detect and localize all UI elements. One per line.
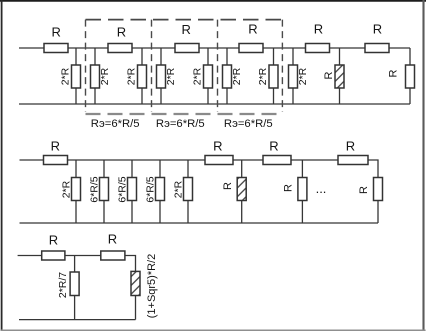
svg-text:R: R <box>346 138 355 153</box>
resistor R series 4 (top ladder) <box>239 44 263 53</box>
resistor (1+Sqr5)*R/2 shunt hatched (bottom circuit) <box>131 271 140 319</box>
svg-text:R: R <box>388 69 400 77</box>
svg-text:R: R <box>51 138 60 153</box>
svg-text:2*R: 2*R <box>231 67 243 85</box>
resistor R series 1 (middle ladder) <box>44 156 68 165</box>
svg-text:2*R: 2*R <box>192 67 204 85</box>
resistor R series 2 (bottom circuit) <box>101 251 125 260</box>
resistor R series 3 (top ladder) <box>175 44 199 53</box>
svg-text:R: R <box>108 232 117 247</box>
dashed box: left edge (cell 1) <box>85 20 87 112</box>
svg-text:Rэ=6*R/5: Rэ=6*R/5 <box>156 118 205 130</box>
svg-text:R: R <box>182 22 191 37</box>
svg-text:2*R: 2*R <box>257 67 269 85</box>
resistor R series 4 (middle ladder) <box>338 156 368 165</box>
svg-text:R: R <box>117 25 126 40</box>
dashed divider between cell 1 and cell 2 <box>151 20 153 112</box>
svg-text:Rэ=6*R/5: Rэ=6*R/5 <box>224 118 273 130</box>
wire: top ladder lower rail <box>19 103 410 105</box>
frame: outer border left edge <box>1 0 3 331</box>
svg-text:2*R/7: 2*R/7 <box>57 272 69 298</box>
dashed divider between cell 2 and cell 3 <box>217 20 219 112</box>
resistor 2*R shunt 7 (top ladder) <box>269 48 278 104</box>
svg-text:R: R <box>323 71 335 79</box>
svg-text:R: R <box>283 184 295 192</box>
frame: outer border right edge <box>422 0 424 331</box>
resistor 2*R shunt 3 (top ladder) <box>138 48 147 104</box>
wire: bottom circuit upper rail right segment with corner <box>125 256 136 272</box>
wire: middle ladder lower rail <box>20 222 379 224</box>
resistor 2*R shunt 1 (top ladder) <box>72 48 81 104</box>
resistor 6*R/5 shunt 3 (middle ladder) <box>128 160 137 223</box>
resistor 2*R/7 shunt (bottom circuit) <box>70 256 79 320</box>
wire: bottom circuit upper rail left segment <box>18 255 42 257</box>
svg-text:R: R <box>314 22 323 37</box>
svg-text:6*R/5: 6*R/5 <box>89 176 101 202</box>
resistor R series 5 (top ladder) <box>306 44 330 53</box>
svg-text:(1+Sqr5)*R/2: (1+Sqr5)*R/2 <box>146 254 158 319</box>
wire: middle ladder upper rail <box>20 159 339 161</box>
resistor R series 1 (bottom circuit) <box>42 251 65 260</box>
resistor R shunt right end (top ladder termination) <box>406 48 415 104</box>
resistor R shunt hatched (top ladder load) <box>335 48 344 104</box>
wire: top ladder upper rail <box>19 47 410 49</box>
svg-text:R: R <box>248 22 257 37</box>
svg-text:R: R <box>49 233 58 248</box>
svg-text:2*R: 2*R <box>99 67 111 85</box>
frame: outer border top edge <box>0 0 426 2</box>
wire: bottom circuit upper rail middle segment <box>65 255 101 257</box>
svg-text:6*R/5: 6*R/5 <box>117 176 129 202</box>
svg-text:R: R <box>269 138 278 153</box>
wire: middle ladder upper rail right segment with corner <box>368 160 378 178</box>
resistor R series 2 (top ladder) <box>108 44 132 53</box>
svg-text:Rэ=6*R/5: Rэ=6*R/5 <box>91 118 140 130</box>
resistor R shunt right end (middle ladder termination) <box>374 178 383 224</box>
resistor 6*R/5 shunt 2 (middle ladder) <box>100 160 109 223</box>
resistor 2*R shunt 8 (top ladder) <box>289 48 298 104</box>
svg-text:R: R <box>52 24 61 39</box>
svg-text:2*R: 2*R <box>297 67 309 85</box>
svg-text:2*R: 2*R <box>126 67 138 85</box>
svg-text:R: R <box>373 22 382 37</box>
resistor R series 3 (middle ladder) <box>263 156 291 165</box>
svg-text:2*R: 2*R <box>165 67 177 85</box>
svg-text:2*R: 2*R <box>61 180 73 198</box>
resistor 2*R shunt 2 (top ladder) <box>91 48 100 104</box>
dashed box: right edge (cell 3) <box>281 20 283 112</box>
resistor R series 6 (top ladder) <box>365 44 389 53</box>
resistor 2*R shunt 5 (middle ladder) <box>184 160 193 223</box>
resistor R shunt 7 (middle ladder) <box>298 160 307 223</box>
svg-text:6*R/5: 6*R/5 <box>145 176 157 202</box>
dashed box: top edge (equivalent cells, top ladder) <box>86 19 283 21</box>
resistor R shunt hatched (middle ladder) <box>237 160 246 223</box>
svg-text:R: R <box>358 186 370 194</box>
resistor R series 1 (top ladder) <box>44 44 68 53</box>
resistor R series 2 (middle ladder) <box>205 156 233 165</box>
svg-text:R: R <box>213 138 222 153</box>
resistor 2*R shunt 5 (top ladder) <box>204 48 213 104</box>
resistor 2*R shunt 1 (middle ladder) <box>72 160 81 223</box>
svg-text:2*R: 2*R <box>173 180 185 198</box>
svg-text:R: R <box>222 182 234 190</box>
svg-text:2*R: 2*R <box>60 67 72 85</box>
dashed box: bottom edge (equivalent cells, top ladder) <box>86 113 283 115</box>
resistor 2*R shunt 6 (top ladder) <box>223 48 232 104</box>
wire: bottom circuit lower rail <box>19 319 136 321</box>
resistor 6*R/5 shunt 4 (middle ladder) <box>156 160 165 223</box>
svg-text:...: ... <box>316 181 327 196</box>
frame: outer border bottom edge <box>1 329 426 331</box>
resistor 2*R shunt 4 (top ladder) <box>157 48 166 104</box>
